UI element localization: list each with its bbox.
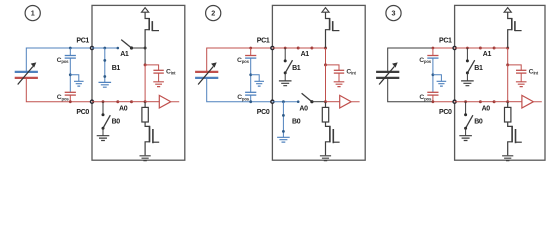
transistor M0 (bottom) xyxy=(145,122,159,155)
svg-text:PC1: PC1 xyxy=(257,38,270,45)
junction: Cint tee xyxy=(144,63,147,66)
resistor R1 (bias) xyxy=(322,102,328,122)
capacitor Cpos (top) xyxy=(237,47,256,64)
junction: Cint tee xyxy=(324,63,327,66)
ground (bottom MOSFET source) xyxy=(502,156,513,161)
node PC1 xyxy=(257,38,274,50)
transistor M1 (top current source) xyxy=(508,12,522,48)
node PC0 xyxy=(439,100,456,116)
switch B0 (open) xyxy=(459,100,483,140)
svg-text:PC0: PC0 xyxy=(76,109,89,116)
capacitor Cpos (top) xyxy=(57,47,76,64)
wire: column junction to Cint tee xyxy=(507,48,509,65)
wire: switch A1 to integrator column xyxy=(312,47,326,49)
svg-text:1: 1 xyxy=(31,9,35,18)
wire: sensor top plate to Cpos junction xyxy=(207,48,251,72)
switch A0 (open) xyxy=(297,93,314,112)
svg-text:A0: A0 xyxy=(119,106,128,113)
capacitor Cpos (bottom) xyxy=(237,92,256,103)
wire: column junction to Cint tee xyxy=(325,48,327,65)
transistor M0 (bottom) xyxy=(326,122,340,155)
wire: PC1 to switch A1 xyxy=(455,47,481,49)
ground (bottom MOSFET source) xyxy=(320,156,331,161)
switch B0 (open) xyxy=(97,100,121,140)
svg-text:A1: A1 xyxy=(483,51,492,58)
transistor M1 (top current source) xyxy=(145,12,159,48)
switch A0 (closed) xyxy=(479,100,496,113)
capacitor Cint xyxy=(508,65,539,87)
ground (bottom MOSFET source) xyxy=(140,156,151,161)
phase label 3 xyxy=(386,6,401,21)
IC enclosure box panel 2 xyxy=(272,5,365,160)
wire: PC1 to switch A1 xyxy=(92,47,118,49)
junction: bottom column node xyxy=(506,100,509,103)
resistor R1 (bias) xyxy=(505,102,511,122)
switch B1 (open) xyxy=(461,47,483,86)
node PC0 xyxy=(257,100,274,116)
phase label 2 xyxy=(206,6,221,21)
wire: Cint tee to bottom junction xyxy=(325,65,327,102)
wire: bottom Cpos junction to node PC0 xyxy=(70,101,92,103)
supply arrow xyxy=(504,8,511,13)
wire: sensor top plate to Cpos junction xyxy=(26,48,70,72)
wire: sensor bottom plate to Cpos junction (bottom) xyxy=(26,78,70,102)
svg-text:B0: B0 xyxy=(292,119,301,126)
wire: Cpos junction to node PC1 xyxy=(433,47,455,49)
wire: switch A1 to integrator column xyxy=(494,47,508,49)
supply arrow xyxy=(142,8,149,13)
svg-text:A1: A1 xyxy=(120,51,129,58)
grounded node between Cpos capacitors xyxy=(432,58,447,92)
capacitor Cpos (top) xyxy=(419,47,438,64)
grounded node between Cpos capacitors xyxy=(249,58,264,92)
node PC0 xyxy=(76,100,93,116)
capacitor Cint xyxy=(326,65,357,87)
svg-text:B1: B1 xyxy=(112,65,121,72)
wire: Cpos junction to node PC1 xyxy=(251,47,273,49)
junction: top column node xyxy=(506,47,509,50)
IC enclosure box panel 3 xyxy=(455,5,545,160)
node PC1 xyxy=(439,38,456,50)
wire: switch A0 to bottom junction xyxy=(312,101,326,103)
variable sense capacitor Cx panel 3 xyxy=(376,62,399,84)
wire: Cint tee to bottom junction xyxy=(507,65,509,102)
capacitor Cpos (bottom) xyxy=(57,92,76,103)
capacitor Cpos (bottom) xyxy=(419,92,438,103)
wire: bottom Cpos junction to node PC0 xyxy=(433,101,455,103)
svg-text:A0: A0 xyxy=(299,106,308,113)
op-amp buffer U1 xyxy=(326,95,360,108)
switch A0 (closed) xyxy=(116,100,133,113)
grounded node between Cpos capacitors xyxy=(69,58,84,92)
svg-text:B0: B0 xyxy=(112,119,121,126)
wire: switch A1 to integrator column xyxy=(132,47,146,49)
capacitor Cint xyxy=(145,65,176,87)
transistor M1 (top current source) xyxy=(326,12,340,48)
switch A1 (closed) xyxy=(479,47,496,59)
svg-text:A0: A0 xyxy=(482,106,491,113)
junction: Cint tee xyxy=(506,63,509,66)
svg-text:A1: A1 xyxy=(301,51,310,58)
wire: PC1 to switch A1 xyxy=(272,47,298,49)
junction: top column node xyxy=(144,47,147,50)
svg-text:PC1: PC1 xyxy=(76,38,89,45)
op-amp buffer U1 xyxy=(145,95,179,108)
svg-text:PC1: PC1 xyxy=(439,38,452,45)
wire: bottom Cpos junction to node PC0 xyxy=(251,101,273,103)
svg-text:B1: B1 xyxy=(292,65,301,72)
switch B1 (closed) xyxy=(99,47,121,88)
supply arrow xyxy=(322,8,329,13)
transistor M0 (bottom) xyxy=(508,122,522,155)
junction: top column node xyxy=(324,47,327,50)
node PC1 xyxy=(76,38,93,50)
switch A1 (open) xyxy=(117,40,134,58)
wire: PC0 to switch A0 xyxy=(272,101,298,103)
switch B1 (open) xyxy=(279,47,301,86)
svg-text:B0: B0 xyxy=(474,119,483,126)
resistor R1 (bias) xyxy=(142,102,148,122)
switch B0 (closed) xyxy=(277,100,301,142)
phase label 1 xyxy=(25,6,40,21)
wire: sensor top plate to Cpos junction xyxy=(388,48,433,72)
wire: sensor bottom plate to Cpos junction (bottom) xyxy=(207,78,251,102)
wire: sensor bottom plate to Cpos junction (bottom) xyxy=(388,78,433,102)
wire: Cint tee to bottom junction xyxy=(144,65,146,102)
switch A1 (closed) xyxy=(297,47,314,59)
wire: switch A0 to bottom junction xyxy=(132,101,146,103)
svg-text:3: 3 xyxy=(392,9,396,18)
svg-text:2: 2 xyxy=(211,9,215,18)
junction: bottom column node xyxy=(144,100,147,103)
svg-text:PC0: PC0 xyxy=(257,109,270,116)
wire: switch A0 to bottom junction xyxy=(494,101,508,103)
variable sense capacitor Cx panel 1 xyxy=(15,62,38,84)
junction: bottom column node xyxy=(324,100,327,103)
wire: PC0 to switch A0 xyxy=(92,101,118,103)
wire: Cpos junction to node PC1 xyxy=(70,47,92,49)
wire: column junction to Cint tee xyxy=(144,48,146,65)
op-amp buffer U1 xyxy=(508,95,542,108)
variable sense capacitor Cx panel 2 xyxy=(195,62,218,84)
svg-text:B1: B1 xyxy=(474,65,483,72)
wire: PC0 to switch A0 xyxy=(455,101,481,103)
svg-text:PC0: PC0 xyxy=(439,109,452,116)
IC enclosure box panel 1 xyxy=(92,5,185,160)
